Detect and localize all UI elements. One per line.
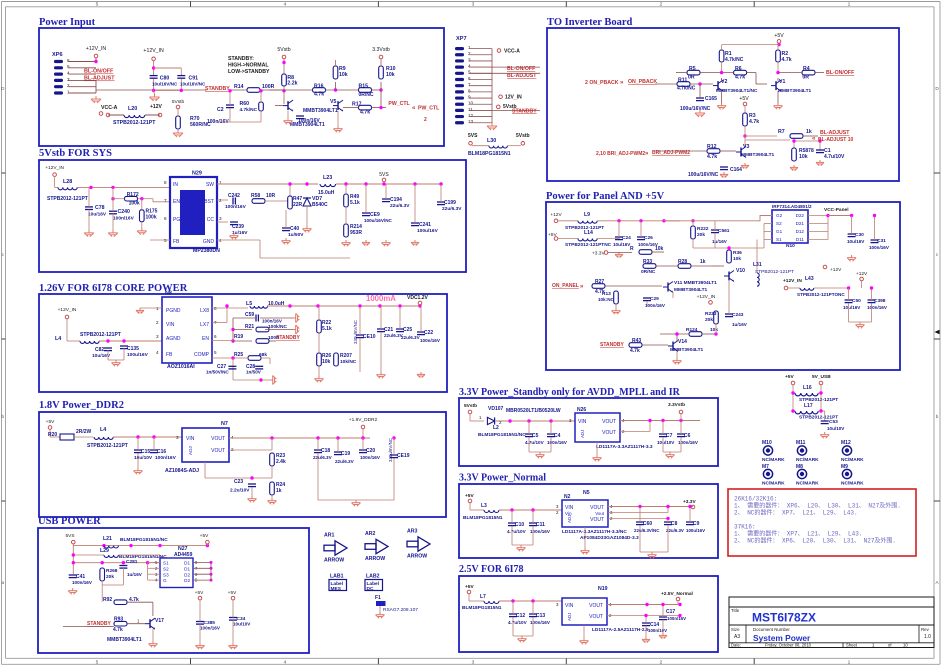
svg-text:R17: R17	[352, 102, 362, 108]
svg-text:2,10 BRI_ADJ-PWM2: 2,10 BRI_ADJ-PWM2	[596, 151, 645, 157]
svg-text:D12: D12	[796, 229, 805, 234]
svg-text:8: 8	[164, 180, 167, 185]
svg-text:CC: CC	[207, 217, 215, 223]
svg-text:C242: C242	[228, 193, 240, 199]
svg-text:1、 需要的器件： XP7、 L21、 L29、 L43.: 1、 需要的器件： XP7、 L21、 L29、 L43.	[734, 530, 862, 538]
svg-text:L43: L43	[805, 276, 814, 282]
svg-text:R43: R43	[632, 338, 641, 344]
svg-text:100n/16V: 100n/16V	[72, 580, 93, 585]
svg-text:C240: C240	[118, 209, 131, 215]
svg-text:1k: 1k	[806, 129, 812, 135]
svg-text:AOZ1016AI: AOZ1016AI	[167, 364, 195, 370]
svg-text:10u/16V: 10u/16V	[88, 212, 107, 218]
svg-text:GND: GND	[203, 239, 215, 245]
svg-text:ON_PBACK: ON_PBACK	[628, 79, 657, 85]
svg-text:S1: S1	[163, 561, 169, 566]
svg-text:V11 MMBT3904LT1: V11 MMBT3904LT1	[674, 280, 717, 286]
svg-text:3.3V Power_Normal: 3.3V Power_Normal	[459, 473, 546, 484]
svg-text:G1: G1	[776, 229, 783, 234]
svg-text:N7: N7	[221, 421, 228, 427]
svg-text:IRF7314.AD4801/2: IRF7314.AD4801/2	[772, 204, 812, 209]
svg-text:10k: 10k	[733, 256, 741, 262]
svg-text:1k: 1k	[276, 488, 282, 494]
svg-text:4: 4	[156, 350, 159, 355]
svg-text:C241: C241	[419, 222, 431, 228]
svg-text:12: 12	[468, 113, 474, 118]
svg-text:a: a	[2, 580, 5, 585]
svg-text:Date:: Date:	[731, 643, 741, 648]
svg-text:C30: C30	[855, 232, 864, 238]
svg-text:ARROW: ARROW	[324, 558, 344, 564]
svg-text:C59: C59	[245, 312, 254, 318]
svg-text:R33: R33	[643, 259, 652, 265]
svg-text:HIGH->NORMAL: HIGH->NORMAL	[228, 63, 269, 69]
svg-text:R93: R93	[114, 617, 123, 623]
svg-text:C24: C24	[622, 235, 631, 241]
svg-text:2.2k: 2.2k	[287, 81, 297, 87]
svg-text:4: 4	[468, 64, 471, 69]
svg-text:C239: C239	[232, 224, 244, 230]
svg-text:MMBT3904LT1: MMBT3904LT1	[741, 152, 775, 158]
svg-text:D1: D1	[184, 561, 190, 566]
svg-text:EN: EN	[202, 336, 209, 342]
svg-text:R60: R60	[240, 101, 250, 107]
svg-text:BL-ADJUST: BL-ADJUST	[507, 73, 537, 79]
svg-text:Document Number: Document Number	[753, 627, 790, 632]
svg-text:R14: R14	[234, 84, 244, 90]
svg-text:7: 7	[468, 82, 471, 87]
svg-text:R6: R6	[735, 66, 742, 72]
svg-text:+5V: +5V	[739, 96, 749, 102]
svg-text:100k: 100k	[146, 215, 157, 221]
svg-text:1.8V Power_DDR2: 1.8V Power_DDR2	[39, 400, 124, 411]
svg-text:VIN: VIN	[578, 419, 587, 425]
svg-text:STPB2012-121PTNC: STPB2012-121PTNC	[565, 242, 612, 248]
svg-text:MMBT3904LT1: MMBT3904LT1	[674, 287, 708, 293]
svg-text:4.7k/NC: 4.7k/NC	[725, 57, 744, 63]
svg-text:68k: 68k	[259, 352, 267, 358]
svg-text:V10: V10	[736, 268, 745, 274]
svg-text:10: 10	[468, 101, 474, 106]
svg-text:5: 5	[67, 64, 70, 69]
svg-text:5.1k: 5.1k	[350, 200, 360, 206]
svg-text:100n/16V: 100n/16V	[547, 440, 568, 445]
svg-text:4.7u/10V: 4.7u/10V	[824, 154, 845, 160]
svg-text:L17: L17	[804, 403, 813, 409]
svg-text:RSAG7.208.107: RSAG7.208.107	[383, 607, 418, 613]
svg-text:STPB2012-121PT: STPB2012-121PT	[80, 332, 121, 338]
svg-text:C5: C5	[532, 433, 539, 439]
svg-text:ADJ: ADJ	[567, 613, 572, 621]
svg-text:12V_IN: 12V_IN	[505, 95, 522, 101]
svg-text:N29: N29	[192, 171, 202, 177]
svg-text:G2: G2	[776, 213, 783, 218]
svg-text:VOUT: VOUT	[211, 436, 225, 442]
svg-text:20k: 20k	[705, 317, 713, 323]
svg-text:Power for Panel AND +5V: Power for Panel AND +5V	[546, 191, 665, 202]
svg-text:FB: FB	[166, 352, 173, 358]
svg-text:R25: R25	[234, 352, 243, 358]
svg-text:MMBT3904LT1: MMBT3904LT1	[107, 637, 142, 643]
svg-text:STANDBY:: STANDBY:	[228, 56, 254, 62]
svg-text:USB POWER: USB POWER	[38, 516, 101, 527]
svg-text:2.4k: 2.4k	[276, 459, 286, 465]
svg-text:STANDBY: STANDBY	[205, 86, 230, 92]
svg-text:V3: V3	[743, 144, 749, 150]
svg-text:D11: D11	[796, 237, 805, 242]
svg-text:VOUT: VOUT	[602, 419, 616, 425]
svg-text:L14: L14	[584, 230, 593, 236]
svg-text:+3.3V: +3.3V	[683, 499, 696, 505]
svg-text:C25: C25	[403, 327, 412, 333]
svg-text:C194: C194	[390, 197, 402, 203]
svg-text:L16: L16	[803, 385, 812, 391]
svg-text:PW_CTL: PW_CTL	[418, 106, 440, 112]
svg-text:F1: F1	[375, 595, 381, 601]
svg-text:+1.8V_DDR2: +1.8V_DDR2	[349, 417, 378, 423]
svg-text:2: 2	[660, 660, 663, 666]
svg-text:R7: R7	[778, 129, 785, 135]
svg-text:Size: Size	[731, 627, 740, 632]
svg-text:VIN: VIN	[186, 436, 195, 442]
svg-text:N8: N8	[165, 291, 172, 297]
svg-text:VDC1.2V: VDC1.2V	[407, 295, 429, 301]
svg-text:ARROW: ARROW	[407, 554, 427, 560]
svg-text:C281: C281	[126, 559, 138, 565]
svg-text:EN: EN	[173, 199, 180, 205]
svg-text:+5V: +5V	[465, 584, 474, 590]
svg-text:5Vstb: 5Vstb	[516, 133, 530, 139]
svg-text:1k: 1k	[700, 259, 706, 265]
svg-text:5: 5	[214, 350, 217, 355]
svg-text:C16: C16	[157, 449, 166, 455]
svg-text:560R/NC: 560R/NC	[190, 122, 211, 128]
svg-text:C199: C199	[444, 200, 456, 206]
svg-text:100n/16V: 100n/16V	[200, 626, 221, 631]
svg-text:C561: C561	[718, 228, 730, 234]
svg-text:TO Inverter Board: TO Inverter Board	[547, 17, 633, 28]
svg-text:Title: Title	[731, 608, 740, 613]
svg-text:4: 4	[231, 435, 234, 440]
svg-text:100k: 100k	[129, 201, 140, 207]
svg-text:BLM18PG1815N1/NC: BLM18PG1815N1/NC	[478, 432, 526, 438]
svg-text:V17: V17	[155, 618, 164, 624]
svg-text:ADJ: ADJ	[580, 430, 585, 438]
svg-text:LX7: LX7	[200, 322, 209, 328]
svg-text:MES: MES	[331, 586, 342, 592]
svg-text:C78: C78	[95, 205, 105, 211]
svg-text:DC: DC	[367, 586, 374, 592]
svg-text:V1: V1	[779, 79, 785, 85]
svg-text:L23: L23	[323, 175, 332, 181]
svg-text:BLM18PG1815N1/NC: BLM18PG1815N1/NC	[120, 537, 168, 543]
svg-text:0R/NC: 0R/NC	[641, 269, 656, 275]
svg-text:M12: M12	[841, 440, 851, 446]
svg-text:5VS: 5VS	[468, 133, 478, 139]
svg-text:3: 3	[468, 57, 471, 62]
svg-text:C23: C23	[234, 479, 243, 485]
svg-text:S3: S3	[163, 572, 169, 577]
svg-text:100n/16V: 100n/16V	[867, 305, 888, 310]
svg-text:V14: V14	[678, 339, 687, 345]
svg-text:NC/MARK: NC/MARK	[762, 481, 785, 487]
svg-text:R19: R19	[234, 334, 243, 340]
svg-text:+5V: +5V	[774, 33, 784, 39]
svg-text:Vout: Vout	[595, 511, 605, 516]
svg-text:VOUT: VOUT	[589, 603, 603, 609]
svg-text:C50: C50	[852, 298, 861, 304]
svg-text:5VS: 5VS	[65, 533, 74, 539]
svg-text:G: G	[163, 578, 167, 583]
svg-text:+12V: +12V	[830, 267, 842, 273]
svg-text:A3: A3	[734, 634, 740, 640]
svg-text:2 ON_PBACK: 2 ON_PBACK	[585, 80, 619, 86]
svg-text:10k: 10k	[339, 72, 348, 78]
svg-text:R16: R16	[314, 84, 324, 90]
svg-text:R11: R11	[678, 78, 687, 84]
svg-text:L31: L31	[753, 262, 762, 268]
svg-text:10k: 10k	[322, 359, 331, 365]
svg-text:AP1084D33GAZ1084D-3.3: AP1084D33GAZ1084D-3.3	[580, 535, 639, 541]
svg-text:C29: C29	[650, 296, 659, 302]
svg-text:R27: R27	[595, 279, 604, 285]
svg-text:COMP: COMP	[194, 352, 210, 358]
svg-text:10u/16V: 10u/16V	[847, 239, 865, 244]
svg-text:5: 5	[96, 660, 99, 666]
svg-text:3: 3	[472, 2, 475, 8]
svg-text:STPB2012-121PT: STPB2012-121PT	[755, 269, 794, 275]
svg-text:S1: S1	[776, 237, 782, 242]
svg-text:100n/16V: 100n/16V	[262, 319, 283, 324]
svg-text:3: 3	[67, 77, 70, 82]
svg-text:V5: V5	[330, 99, 336, 105]
svg-text:4: 4	[67, 71, 70, 76]
svg-text:C13: C13	[536, 613, 545, 619]
svg-text:1n/50V/NC: 1n/50V/NC	[206, 370, 229, 375]
svg-text:+5V: +5V	[785, 374, 794, 380]
svg-text:AR2: AR2	[365, 531, 375, 537]
svg-text:S2: S2	[776, 221, 782, 226]
svg-text:3: 3	[176, 435, 179, 440]
svg-text:2.5V FOR 6I78: 2.5V FOR 6I78	[459, 564, 524, 575]
svg-text:100n/10V: 100n/10V	[648, 628, 667, 633]
svg-text:4.7k: 4.7k	[113, 627, 123, 633]
svg-text:4.7k: 4.7k	[630, 348, 640, 354]
svg-text:1n/50V: 1n/50V	[246, 370, 262, 375]
svg-text:STPB2012-121PT: STPB2012-121PT	[87, 443, 128, 449]
svg-text:ARROW: ARROW	[365, 556, 385, 562]
svg-text:NC/MARK: NC/MARK	[841, 481, 864, 487]
svg-text:NC/MARK: NC/MARK	[796, 481, 819, 487]
svg-text:N19: N19	[598, 586, 608, 592]
svg-text:D2: D2	[184, 572, 190, 577]
svg-text:BL-ADJUST 10: BL-ADJUST 10	[818, 137, 854, 143]
svg-text:3.3V Power_Standby only for AV: 3.3V Power_Standby only for AVDD_MPLL an…	[459, 387, 681, 398]
svg-text:L7: L7	[480, 594, 486, 600]
svg-text:2: 2	[660, 2, 663, 8]
svg-text:ADJ: ADJ	[188, 446, 193, 455]
svg-text:100u/16V: 100u/16V	[686, 528, 705, 533]
svg-text:C164: C164	[730, 167, 742, 173]
svg-text:37K16:: 37K16:	[734, 524, 756, 531]
svg-text:15.0uH: 15.0uH	[318, 190, 335, 196]
svg-text:C135: C135	[127, 346, 139, 352]
svg-text:M10: M10	[762, 440, 772, 446]
svg-text:C15: C15	[141, 449, 150, 455]
svg-text:6: 6	[164, 216, 167, 221]
svg-text:BLM18PG1815N1: BLM18PG1815N1	[462, 605, 502, 611]
svg-text:1: 1	[848, 660, 851, 666]
svg-text:C398: C398	[874, 298, 886, 304]
svg-text:22u/6.3V/NC: 22u/6.3V/NC	[634, 528, 660, 533]
svg-text:VOUT: VOUT	[589, 614, 603, 620]
svg-text:22u/6.3V: 22u/6.3V	[390, 203, 410, 209]
svg-text:4.7u/10V: 4.7u/10V	[508, 620, 528, 625]
svg-text:2: 2	[468, 51, 471, 56]
svg-text:26K16/32K16:: 26K16/32K16:	[734, 496, 777, 503]
svg-text:4.7k/NC: 4.7k/NC	[240, 107, 258, 113]
svg-text:+5V: +5V	[548, 232, 557, 238]
svg-text:1u/16V: 1u/16V	[712, 239, 728, 244]
svg-text:NC/MARK: NC/MARK	[762, 457, 785, 463]
svg-text:STANDBY: STANDBY	[600, 342, 624, 348]
svg-text:C20: C20	[366, 448, 375, 454]
svg-text:LX8: LX8	[200, 308, 209, 314]
svg-text:AR3: AR3	[407, 529, 417, 535]
svg-text:L4: L4	[100, 427, 106, 433]
svg-text:R268: R268	[106, 568, 118, 574]
svg-text:1: 1	[156, 306, 159, 311]
svg-text:Friday, October 08, 2010: Friday, October 08, 2010	[765, 643, 812, 648]
svg-text:100u/16V/NC: 100u/16V/NC	[680, 106, 711, 112]
svg-text:R15: R15	[359, 84, 369, 90]
svg-text:+12V_IN: +12V_IN	[58, 307, 77, 313]
svg-text:LOW->STANDBY: LOW->STANDBY	[228, 69, 270, 75]
svg-text:C11: C11	[536, 522, 545, 528]
svg-text:4.7k: 4.7k	[749, 119, 759, 125]
svg-text:1u/16V: 1u/16V	[732, 322, 748, 327]
svg-text:L29: L29	[100, 548, 109, 554]
svg-text:D1: D1	[184, 566, 190, 571]
svg-text:0R: 0R	[802, 74, 809, 80]
svg-text:3.3Vstb: 3.3Vstb	[668, 402, 685, 408]
svg-text:3: 3	[219, 216, 222, 221]
svg-text:C12: C12	[516, 613, 525, 619]
svg-text:5VS: 5VS	[379, 172, 389, 178]
svg-text:R207: R207	[340, 353, 352, 359]
svg-text:C19: C19	[341, 451, 350, 457]
svg-text:R20: R20	[48, 432, 57, 438]
svg-text:Sheet: Sheet	[846, 643, 858, 648]
svg-text:6: 6	[214, 334, 217, 339]
svg-text:330u/6V/NC: 330u/6V/NC	[353, 320, 358, 344]
svg-text:MMBT3904LT1: MMBT3904LT1	[303, 108, 338, 114]
svg-text:M11: M11	[796, 440, 806, 446]
svg-text:100n/16V: 100n/16V	[869, 245, 890, 250]
svg-text:IN: IN	[173, 182, 178, 188]
svg-text:22u/6.3V: 22u/6.3V	[313, 455, 333, 460]
svg-text:+12V: +12V	[150, 104, 162, 110]
svg-text:1: 1	[67, 89, 70, 94]
svg-text:VIN: VIN	[166, 322, 175, 328]
svg-text:5: 5	[468, 70, 471, 75]
svg-text:5Vstb: 5Vstb	[464, 403, 477, 409]
svg-text:10: 10	[903, 643, 908, 648]
svg-text:C7: C7	[666, 433, 673, 439]
svg-text:C53: C53	[829, 419, 838, 425]
svg-text:100R: 100R	[262, 84, 275, 90]
svg-text:10R: 10R	[266, 193, 276, 199]
svg-text:22u/6.3V: 22u/6.3V	[401, 335, 421, 340]
svg-text:10u/10V: 10u/10V	[657, 440, 675, 445]
svg-text:R12: R12	[707, 144, 717, 150]
svg-text:MP2380DN: MP2380DN	[193, 248, 220, 254]
svg-text:C10: C10	[515, 522, 524, 528]
svg-text:N26: N26	[577, 407, 586, 413]
svg-text:C60: C60	[643, 521, 652, 527]
svg-text:2: 2	[219, 198, 222, 203]
svg-text:4: 4	[219, 238, 222, 243]
svg-text:5Vstb: 5Vstb	[172, 99, 185, 105]
svg-text:100n/16V: 100n/16V	[298, 118, 320, 124]
svg-text:100n/16V: 100n/16V	[645, 303, 666, 308]
svg-text:XP7: XP7	[456, 36, 467, 42]
svg-text:+12V_IN: +12V_IN	[86, 46, 107, 52]
svg-text:STPB2012-121PT: STPB2012-121PT	[47, 196, 88, 202]
svg-text:R5: R5	[689, 66, 696, 72]
svg-text:FB: FB	[173, 239, 180, 245]
svg-text:7: 7	[164, 198, 167, 203]
svg-text:4.7k: 4.7k	[735, 74, 745, 80]
svg-text:10u/10V: 10u/10V	[233, 622, 251, 627]
svg-text:10k/NC: 10k/NC	[340, 359, 357, 365]
svg-text:9: 9	[468, 94, 471, 99]
svg-text:N5: N5	[583, 490, 590, 496]
svg-text:VCC-Panel: VCC-Panel	[824, 207, 849, 213]
svg-text:AZ1084S-ADJ: AZ1084S-ADJ	[165, 468, 199, 474]
svg-text:+5V: +5V	[46, 419, 55, 425]
svg-text:5Vstb: 5Vstb	[277, 47, 290, 53]
svg-text:+12V: +12V	[856, 271, 868, 277]
svg-text:10k: 10k	[386, 72, 395, 78]
svg-text:MMBT3904LT1/NC: MMBT3904LT1/NC	[716, 88, 758, 94]
svg-text:2、 NC的器件： XP7、 L21、 L29、 L43.: 2、 NC的器件： XP7、 L21、 L29、 L43.	[734, 509, 858, 517]
svg-text:10u/16V: 10u/16V	[613, 242, 631, 247]
svg-text:C26: C26	[644, 235, 653, 241]
svg-text:Power Input: Power Input	[39, 17, 96, 28]
svg-text:4.7k: 4.7k	[782, 57, 792, 63]
svg-text:10u/16V/NC: 10u/16V/NC	[152, 82, 178, 87]
svg-text:BL-ADJUST: BL-ADJUST	[820, 130, 850, 136]
svg-text:b: b	[936, 414, 939, 419]
svg-text:MMBT3904LT1: MMBT3904LT1	[670, 347, 704, 353]
svg-text:ON_PANEL: ON_PANEL	[552, 283, 579, 289]
svg-text:R223: R223	[705, 311, 717, 317]
svg-text:L4: L4	[55, 336, 61, 342]
svg-text:10u/16V: 10u/16V	[843, 305, 861, 310]
svg-text:R28: R28	[678, 259, 687, 265]
svg-text:BL-ADJUST: BL-ADJUST	[84, 76, 115, 82]
svg-text:AGND: AGND	[166, 336, 181, 342]
svg-text:R58: R58	[251, 193, 260, 199]
svg-text:MBR0520LT1/B0520LW: MBR0520LT1/B0520LW	[506, 408, 561, 414]
svg-text:R124: R124	[686, 327, 698, 333]
svg-text:C8: C8	[671, 521, 678, 527]
svg-text:20k: 20k	[106, 574, 114, 580]
svg-text:+12V_IN: +12V_IN	[45, 165, 64, 171]
svg-text:+12V: +12V	[550, 212, 562, 218]
svg-text:NC/MARK: NC/MARK	[841, 457, 864, 463]
